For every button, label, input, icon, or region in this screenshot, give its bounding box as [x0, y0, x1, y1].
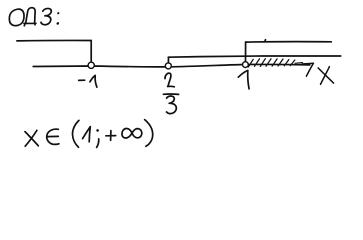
label 2/3 : denominator 3 [167, 96, 177, 114]
answer text : open paren [72, 120, 78, 147]
bracket over x&gt;1 : horizontal [246, 41, 332, 43]
hatching stroke 3 [260, 59, 265, 67]
answer text : plus [106, 131, 116, 141]
open circle at 1 [243, 62, 249, 68]
answer text : semicolon [96, 129, 99, 132]
axis label X [318, 67, 334, 85]
open circle at -1 [88, 62, 94, 68]
bracket line for x&gt;2/3 [168, 56, 340, 57]
label ОДЗ: letter Д [26, 8, 37, 24]
number line (axis) [33, 64, 310, 66]
hatching stroke 6 [278, 59, 283, 66]
hatching dash [295, 62, 303, 65]
hatching stroke 1 [248, 59, 253, 67]
hatching stroke 2 [255, 59, 260, 67]
answer text : digit 1 [83, 127, 91, 142]
answer text : x [25, 130, 38, 146]
bracket over x&gt;1 : vertical [245, 42, 247, 62]
hatching stroke 8 [290, 60, 295, 66]
label ОДЗ: letter З [41, 8, 53, 24]
label ОДЗ: letter О [8, 9, 25, 26]
hatching stroke 5 [272, 59, 277, 66]
label 2/3 : fraction bar [163, 93, 178, 95]
open circle at 2/3 [165, 63, 171, 69]
arrowhead of axis [302, 63, 314, 76]
answer text : infinity [122, 128, 142, 138]
label 2/3 : numerator 2 [165, 73, 174, 87]
answer text : close paren [145, 120, 153, 147]
hatching stroke 7 [284, 60, 289, 66]
hatching stroke 4 [266, 59, 271, 66]
bracket over x&lt;-1 : vertical drop to -1 [90, 41, 92, 63]
label ОДЗ: colon [57, 12, 59, 14]
answer text : element-of [47, 129, 59, 144]
riser from 2/3 circle [167, 57, 169, 63]
small tick on bracket [264, 40, 267, 42]
bracket over x&lt;-1 : horizontal [17, 39, 91, 41]
label 1 below circle : digit 1 [238, 70, 249, 89]
label -1 : digit 1 [90, 75, 97, 87]
label -1 : minus [79, 79, 85, 81]
